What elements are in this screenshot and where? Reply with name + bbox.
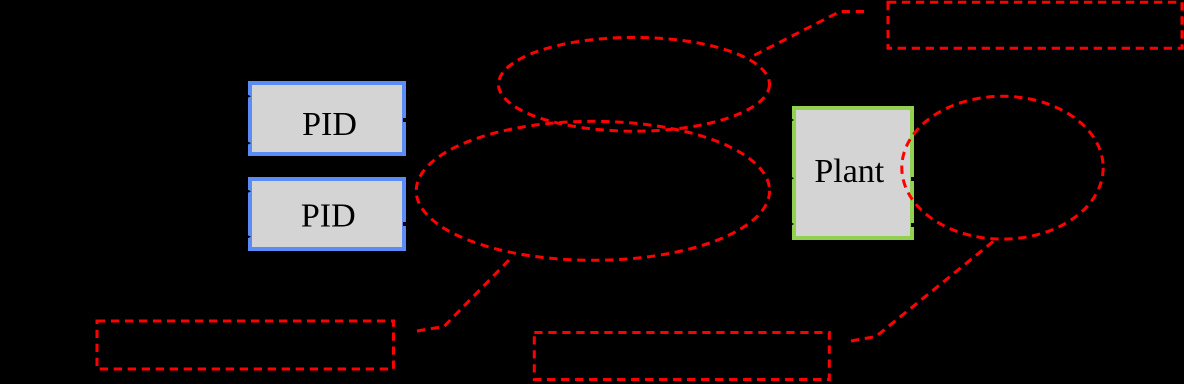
- svg-text:PID: PID: [302, 106, 357, 143]
- svg-text:Plant: Plant: [814, 153, 884, 190]
- svg-text:PID: PID: [301, 197, 356, 234]
